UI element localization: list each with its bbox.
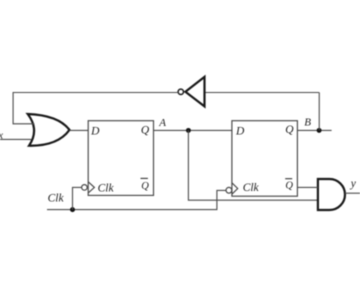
svg-text:A: A [158,117,166,129]
svg-text:Clk: Clk [243,182,260,194]
or-gate G1 [28,114,70,146]
inverter G2 triangle [185,77,204,107]
svg-text:Clk: Clk [48,193,65,205]
wire: AND output y [345,192,360,194]
wire: x input to OR gate [0,138,31,140]
D flip-flop U2 box [232,121,298,197]
junction dot on clk rail [70,207,75,212]
svg-text:Q: Q [285,124,294,136]
svg-text:D: D [90,126,100,138]
clock edge triangle U1 [88,182,94,193]
wire: clk rail up to FF1 clock bubble [73,187,82,209]
node B junction dot [317,128,322,133]
clock edge triangle U2 [232,183,238,194]
svg-text:Q: Q [285,180,293,191]
wire: A branch down and right to AND gate lower input [188,130,318,200]
svg-text:y: y [350,178,357,190]
svg-text:B: B [304,117,311,129]
D flip-flop U1 box [88,121,153,196]
node A junction dot [186,128,191,133]
overbar of Qbar (U2) [285,178,292,180]
clock bubble U1 [82,185,88,191]
wire: top rail left (inverter output to OR gate top input) [13,93,178,124]
wire: clk bottom rail to FF2 clock bubble [47,190,226,209]
wire: B vertical feedback up [318,93,320,131]
clock bubble U2 [226,187,232,193]
svg-text:Clk: Clk [98,182,115,194]
and-gate G3 [318,179,345,210]
wire: node B (Q2 out stub) [297,129,331,131]
svg-text:D: D [235,126,245,138]
svg-text:Q: Q [141,124,150,136]
wire: Q2bar to AND gate upper input [297,186,318,188]
overbar of Qbar (U1) [141,177,148,179]
svg-text:x: x [0,131,3,142]
wire: OR output to FF1 D input [70,129,89,131]
wire: top rail right (B to inverter input) [205,92,320,94]
wire: node A (Q1 to D2) [154,129,232,131]
inverter G2 bubble [178,89,183,94]
svg-text:Q: Q [141,181,149,192]
